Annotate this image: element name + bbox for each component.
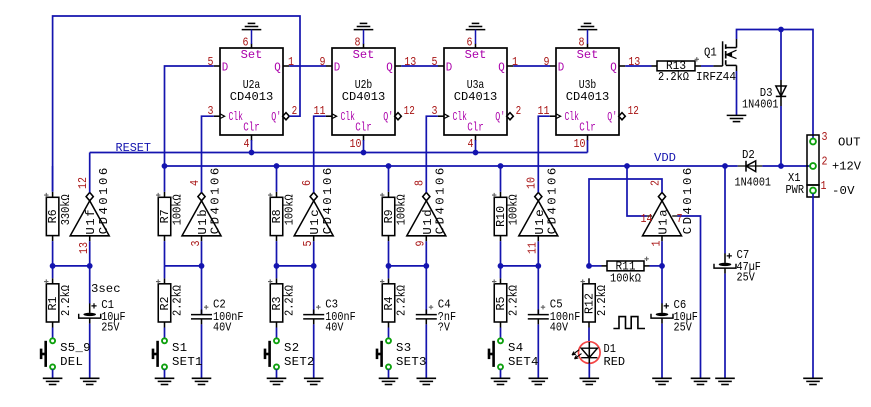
svg-text:Clr: Clr [243,121,260,135]
junction U1d input/cap [423,263,429,269]
pushbutton S1 SET1 [152,338,203,369]
ground (C1) [80,378,100,384]
junction U1e input/cap [535,263,541,269]
svg-text:Clk: Clk [229,110,244,124]
svg-text:D: D [222,60,229,74]
svg-text:330kΩ: 330kΩ [59,194,73,226]
wire: source to ground [736,71,738,115]
svg-text:8: 8 [355,35,361,49]
svg-text:VDD: VDD [654,151,676,165]
svg-text:S5_9: S5_9 [60,341,90,355]
wire: Clr of U3b to RESET rail [587,140,589,153]
wire: Q of U3b to R13 [625,65,651,67]
ground (C5) [529,378,549,384]
svg-text:Clk: Clk [341,110,356,124]
svg-text:CD40106: CD40106 [434,168,448,235]
wire: U1c output to Clk riser [314,116,326,192]
svg-text:IRFZ44: IRFZ44 [696,70,736,84]
resistor R3 2.2kΩ [268,266,297,339]
svg-text:CD4013: CD4013 [342,90,386,104]
svg-text:2.2kΩ: 2.2kΩ [59,284,73,316]
junction VDD/R8 [274,163,280,169]
svg-text:2.2kΩ: 2.2kΩ [395,284,409,316]
svg-text:100kΩ: 100kΩ [283,194,297,226]
svg-text:Q: Q [610,60,617,74]
junction Clr U2b [361,150,367,156]
svg-text:SET3: SET3 [396,355,426,369]
svg-text:SET1: SET1 [172,355,202,369]
svg-text:D: D [334,60,341,74]
svg-text:8: 8 [579,35,585,49]
svg-text:D1: D1 [604,342,616,356]
wire: S1 to ground [164,369,166,378]
junction D3/drain line [778,27,784,33]
flip-flop U2b CD4013 [314,35,417,151]
svg-text:OUT: OUT [838,135,861,149]
svg-text:S1: S1 [172,341,187,355]
svg-text:7: 7 [677,212,683,226]
svg-text:Q': Q' [383,110,393,124]
svg-text:100kΩ: 100kΩ [171,194,185,226]
transistor Q1 IRFZ44 (N-MOSFET) [695,39,737,84]
wire: drain to OUT line [737,30,814,139]
ground (S1) [155,378,175,384]
junction VDD/pin14 [624,163,630,169]
wire: junction row col R10 [537,241,539,266]
svg-text:25V: 25V [737,270,756,284]
svg-text:CD40106: CD40106 [321,168,335,235]
svg-text:100kΩ: 100kΩ [395,194,409,226]
svg-text:CD40106: CD40106 [209,168,223,235]
wire: S2 to ground [276,369,278,378]
svg-text:1: 1 [512,55,518,69]
svg-text:Q: Q [386,60,393,74]
svg-text:10: 10 [574,137,586,151]
svg-text:5: 5 [208,55,214,69]
capacitor C5 100nF [528,266,581,378]
flip-flop U3b CD4013 [538,35,641,151]
ground (X1 pin1) [803,378,823,384]
junction U1c input/cap [311,263,317,269]
resistor R12 2.2kΩ [581,278,610,342]
junction VDD/C7 [722,163,728,169]
svg-text:10: 10 [525,177,539,189]
junction D3/VDD [778,163,784,169]
pushbutton S4 SET4 [488,338,539,369]
svg-text:-0V: -0V [832,184,855,198]
ground (S4) [491,378,511,384]
ground (C3) [304,378,324,384]
svg-text:1: 1 [821,179,827,193]
wire: S3 to ground [388,369,390,378]
resistor R8 100kΩ [268,166,297,266]
svg-text:Clr: Clr [467,121,484,135]
svg-text:13: 13 [404,55,416,69]
svg-text:U1a: U1a [657,209,671,234]
svg-text:Clr: Clr [355,121,372,135]
svg-text:CD4013: CD4013 [230,90,274,104]
svg-text:Q': Q' [495,110,505,124]
svg-text:SET4: SET4 [508,355,538,369]
wire: X1 pin1 to ground [812,194,814,379]
wire: U1f output to RESET [89,153,91,193]
resistor R9 100kΩ [380,166,409,266]
junction R11/R12/U1a-out [586,263,592,269]
svg-text:100kΩ: 100kΩ [610,272,642,286]
ground (Set pin of U2b) [354,23,374,44]
svg-text:Q: Q [274,60,281,74]
ground (S5_9) [43,378,63,384]
wire: D input of U2a from VDD rail [165,66,214,166]
svg-text:14: 14 [641,212,653,226]
wire: U1b output to Clk riser [202,116,214,192]
wire: junction row col R6 [89,241,91,266]
square wave symbol [613,317,645,329]
diode D3 1N4001 [742,80,786,112]
svg-text:4: 4 [188,180,202,186]
wire: S5_9 to ground [52,369,54,378]
diode D2 1N4001 [735,148,772,189]
svg-text:CD40106: CD40106 [97,168,111,235]
svg-text:SET2: SET2 [284,355,314,369]
wire: Clr of U2b to RESET rail [363,140,365,153]
junction U1b input/cap [199,263,205,269]
wire: Clr of U2a to RESET rail [251,140,253,153]
svg-text:3sec: 3sec [91,282,121,296]
wire: D3 to drain line [780,30,782,81]
svg-text:D2: D2 [742,148,755,162]
capacitor C4 ?nF [416,266,456,378]
resistor R10 100kΩ [492,166,521,266]
svg-text:6: 6 [243,35,249,49]
svg-text:Q: Q [498,60,505,74]
resistor R5 2.2kΩ [492,266,521,339]
wire: Q of U2a to D of U2b [289,65,326,67]
svg-text:Clr: Clr [579,121,596,135]
capacitor C3 100nF [303,266,356,378]
ground (D1) [580,378,600,384]
svg-text:1N4001: 1N4001 [735,175,772,189]
connector X1 PWR [786,130,862,198]
svg-text:CD40106: CD40106 [681,168,695,235]
wire: S4 to ground [500,369,502,378]
svg-text:13: 13 [628,55,640,69]
inverter U1e CD40106 [519,168,560,254]
svg-text:Set: Set [465,48,487,62]
ground (S2) [267,378,287,384]
svg-text:25V: 25V [674,320,693,334]
wire: RESET net rail [90,152,588,154]
svg-text:S4: S4 [508,341,523,355]
capacitor C1 10µF [79,266,126,378]
inverter U1b CD40106 [182,168,223,247]
inverter U1a CD40106 [643,168,696,247]
resistor R7 100kΩ [156,166,185,266]
svg-text:2: 2 [516,104,522,118]
svg-text:2.2kΩ: 2.2kΩ [507,284,521,316]
svg-text:Set: Set [353,48,375,62]
inverter U1f CD40106 [70,168,111,254]
resistor R13 2.2kΩ [652,57,700,84]
svg-text:Clk: Clk [565,110,580,124]
svg-text:2.2kΩ: 2.2kΩ [283,284,297,316]
wire: junction row col R7 [201,241,203,266]
junction R8/R3 [274,263,280,269]
svg-text:2: 2 [822,155,828,169]
svg-text:4: 4 [244,137,250,151]
wire: D3 to VDD rail [780,106,782,166]
ground (Set pin of U3b) [578,23,598,44]
svg-text:40V: 40V [325,320,344,334]
LED D1 RED [572,342,625,369]
svg-text:8: 8 [413,180,427,186]
svg-text:Clk: Clk [453,110,468,124]
svg-text:D: D [446,60,453,74]
svg-text:25V: 25V [101,320,120,334]
junction Clr U3a [473,150,479,156]
capacitor C2 100nF [191,266,244,378]
svg-text:RED: RED [604,355,626,369]
svg-text:S3: S3 [396,341,411,355]
svg-text:100kΩ: 100kΩ [507,194,521,226]
svg-text:Q': Q' [607,110,617,124]
ground (Set pin of U3a) [466,23,486,44]
inverter U1d CD40106 [407,168,448,247]
svg-text:2.2kΩ: 2.2kΩ [595,284,609,316]
junction R6/R1 [50,263,56,269]
ground (C4) [417,378,437,384]
flip-flop U2a CD4013 [208,35,298,151]
junction VDD/R10 [498,163,504,169]
resistor R2 2.2kΩ [156,266,185,339]
pushbutton S2 SET2 [264,338,315,369]
svg-text:40V: 40V [550,320,569,334]
svg-text:CD4013: CD4013 [566,90,610,104]
ground (C7) [715,378,735,384]
svg-text:2.2kΩ: 2.2kΩ [171,284,185,316]
svg-text:PWR: PWR [786,183,805,197]
svg-text:9: 9 [544,55,550,69]
pin 7 lead (GND) of U1a [672,215,677,217]
svg-text:S2: S2 [284,341,299,355]
resistor R4 2.2kΩ [380,266,409,339]
svg-text:1N4001: 1N4001 [742,98,779,112]
wire: Q' of U2a feedback to R6 (top run) [53,16,300,192]
junction VDD/R7/D-input [162,163,168,169]
resistor R11 100kΩ [589,257,662,286]
svg-text:Set: Set [577,48,599,62]
svg-text:Q': Q' [271,110,281,124]
junction U1f input/cap [87,263,93,269]
junction R11/U1a-in/C6 [659,263,665,269]
svg-text:Set: Set [241,48,263,62]
wire: Q of U3a to D of U3b [513,65,550,67]
svg-text:9: 9 [320,55,326,69]
wire: VDD rail [165,165,738,167]
svg-text:40V: 40V [213,320,232,334]
svg-text:CD40106: CD40106 [546,168,560,235]
pin 14 lead (VDD) of U1a [627,166,647,216]
svg-text:12: 12 [404,104,415,118]
svg-text:6: 6 [467,35,473,49]
svg-text:1: 1 [288,55,294,69]
svg-text:12: 12 [628,104,639,118]
wire: Clr of U3a to RESET rail [475,140,477,153]
svg-text:2.2kΩ: 2.2kΩ [658,70,690,84]
junction VDD/R9 [386,163,392,169]
svg-text:?V: ?V [438,320,451,334]
inverter U1c CD40106 [294,168,335,247]
svg-text:D: D [558,60,565,74]
flip-flop U3a CD4013 [432,35,522,151]
ground (C6) [652,378,672,384]
svg-text:12: 12 [76,177,90,189]
capacitor C6 10uF 25V [651,266,698,378]
svg-text:2: 2 [648,180,662,186]
junction R9/R4 [386,263,392,269]
svg-text:3: 3 [822,130,828,144]
wire: junction row col R8 [313,241,315,266]
svg-text:CD4013: CD4013 [454,90,498,104]
wire: U1e output to Clk riser [538,116,549,192]
resistor R6 330kΩ [44,166,73,266]
svg-text:RESET: RESET [116,141,152,155]
resistor R1 2.2kΩ [44,266,73,339]
wire: U1a input down [661,241,663,266]
pushbutton S5_9 DEL [40,338,91,369]
svg-text:Q1: Q1 [704,45,717,59]
pushbutton S3 SET3 [376,338,427,369]
wire: Q of U2b to D of U3a [401,65,438,67]
svg-text:10: 10 [350,137,362,151]
ground (Q1 source) [727,115,747,121]
ground (Set pin of U2a) [242,23,262,44]
junction R10/R5 [498,263,504,269]
svg-text:DEL: DEL [60,355,83,369]
wire: U1d output to Clk riser [426,116,437,192]
svg-text:5: 5 [432,55,438,69]
wire: junction row col R9 [425,241,427,266]
svg-text:6: 6 [300,180,314,186]
ground (U1a pin 7) [691,378,711,384]
junction Clr U2a [249,150,255,156]
ground (S3) [379,378,399,384]
wire: D1 to ground [588,363,590,378]
ground (C2) [192,378,212,384]
svg-text:+12V: +12V [832,160,862,174]
capacitor C7 47uF 25V [714,166,761,378]
svg-text:4: 4 [468,137,474,151]
wire: U1a output runner to R12/R11 junction [589,179,662,266]
